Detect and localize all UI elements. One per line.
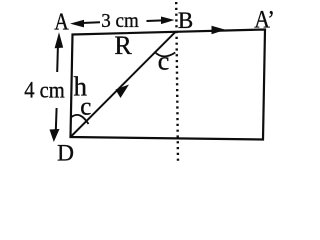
diagonal line D to B xyxy=(71,32,176,137)
svg-text:R: R xyxy=(114,31,132,60)
rectangle ABDA' outline xyxy=(71,30,266,140)
arrowhead on top edge pointing right xyxy=(212,26,226,34)
arrowhead on diagonal xyxy=(116,85,130,99)
svg-text:B: B xyxy=(178,8,193,33)
angle arc c at D xyxy=(72,115,89,124)
svg-text:4 cm: 4 cm xyxy=(24,78,65,104)
4 cm up arrowhead xyxy=(55,32,64,48)
svg-text:A: A xyxy=(54,10,69,36)
4 cm down arrowhead xyxy=(50,129,60,142)
svg-text:A’: A’ xyxy=(254,7,275,34)
svg-text:c: c xyxy=(158,47,170,76)
3 cm dimension arrow right segment xyxy=(147,19,164,22)
svg-text:D: D xyxy=(57,141,74,167)
angle arc c at B xyxy=(155,52,176,56)
svg-text:3 cm: 3 cm xyxy=(101,10,139,32)
3 cm right arrowhead xyxy=(161,17,175,25)
svg-text:c: c xyxy=(80,94,91,121)
4 cm dimension arrow upper segment xyxy=(56,43,59,72)
3 cm dimension arrow left segment xyxy=(82,21,100,24)
4 cm dimension arrow lower segment xyxy=(55,108,58,131)
3 cm left arrowhead xyxy=(70,20,84,28)
dotted vertical line through B xyxy=(176,2,178,163)
